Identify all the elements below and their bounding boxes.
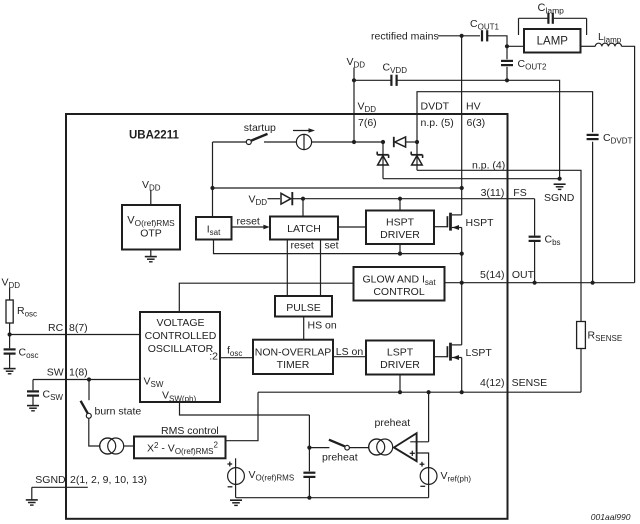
wire OTP to ground [150, 250, 152, 257]
ground CSW ground [27, 405, 39, 407]
svg-text:preheat: preheat [375, 417, 411, 429]
node junction FS / HSPT driver supply [398, 197, 402, 201]
wire RC to Cosc [9, 335, 11, 349]
wire preheat cap to ground rail [308, 477, 310, 498]
wire lamp left [507, 45, 524, 47]
wire LATCH supply stub [302, 199, 304, 217]
node junction 188 rail / HV line [460, 186, 464, 190]
wire X2 output to SENSE rail [226, 392, 259, 441]
svg-text:1(8): 1(8) [69, 367, 88, 379]
wire HSPT gate [434, 226, 447, 228]
wire Z2 anode to RSENSE net (pin n.p.4) [416, 142, 418, 170]
wire lamp return to OUT [622, 46, 635, 282]
svg-text:SGND: SGND [35, 474, 66, 486]
block VOLTAGE CONTROLLED OSCILLATOR box [140, 312, 220, 402]
wire 253 rail (Isat bottom) [214, 240, 462, 254]
svg-text:3(11): 3(11) [481, 187, 505, 199]
node junction SGND net [558, 177, 562, 181]
transistor HSPT source stub+arrow [452, 227, 462, 229]
wire FS drop to Cbs [534, 199, 536, 236]
svg-text:6(3): 6(3) [467, 117, 486, 129]
wire bottom ground rail [236, 497, 429, 499]
svg-text:LATCH: LATCH [287, 223, 321, 235]
switch startup pivot [246, 140, 251, 145]
wire CDVDT to OUT [592, 142, 594, 283]
svg-text:DRIVER: DRIVER [380, 359, 420, 371]
svg-text:CONTROL: CONTROL [373, 286, 424, 298]
wire LS on [333, 356, 366, 358]
svg-text:startup: startup [244, 122, 276, 134]
svg-text:set: set [325, 240, 339, 252]
svg-text:UBA2211: UBA2211 [129, 130, 179, 142]
wire OUT row [445, 282, 635, 284]
wire burn-state to mirror [89, 418, 100, 446]
capacitor COUT1 [481, 30, 483, 41]
svg-text:TIMER: TIMER [277, 359, 310, 371]
wire SGND stub to ground [31, 487, 33, 499]
zener Z2 triangle [412, 156, 423, 165]
ground SGND ground (left) [26, 499, 38, 501]
node junction COUT2/ground rail [505, 78, 509, 82]
svg-text:VOLTAGE: VOLTAGE [156, 317, 204, 329]
svg-text:HS on: HS on [308, 319, 337, 331]
wire SW row [33, 379, 140, 381]
wire X2 box to VO source [235, 458, 237, 497]
switch startup blade [251, 134, 267, 141]
node junction left zener top [381, 140, 385, 144]
diode D1 triangle [395, 137, 406, 147]
voltage source Vref(ph) [428, 468, 430, 498]
block NON-OVERLAP TIMER box [253, 340, 333, 374]
ground Cosc ground [4, 368, 16, 370]
svg-text:burn state: burn state [95, 405, 142, 417]
zener Z2 (right) cathode [411, 154, 422, 156]
svg-text:HSPT: HSPT [466, 217, 495, 229]
zener Z1 (left) cathode [377, 154, 388, 156]
svg-text:LS on: LS on [336, 346, 364, 358]
node junction Isat riser / 188 rail [210, 186, 214, 190]
node junction VDD pin / rail [352, 140, 356, 144]
wire opamp plus input [417, 453, 429, 468]
svg-text:LSPT: LSPT [387, 347, 414, 359]
block LATCH box [270, 217, 338, 240]
node lamp left junction [505, 44, 509, 48]
IC U1 UBA2211 chip outline [66, 114, 508, 519]
block X2-VO(ref)RMS2 box [134, 437, 226, 459]
wire HSPT driver supply stub [399, 199, 401, 211]
capacitor CVDD [390, 75, 392, 86]
capacitor Clamp loop left leg [518, 18, 520, 35]
wire Cbs to OUT [534, 241, 536, 283]
voltage source Vref(ph) plus sign [420, 463, 425, 465]
svg-text:RMS control: RMS control [161, 425, 219, 437]
svg-text:rectified mains: rectified mains [371, 31, 439, 43]
resistor RSENSE [577, 322, 586, 349]
svg-text:n.p. (5): n.p. (5) [421, 117, 454, 129]
svg-text:NON-OVERLAP: NON-OVERLAP [255, 347, 331, 359]
voltage source VO(ref)RMS minus sign [228, 486, 233, 488]
wire opamp minus input [410, 441, 428, 443]
current mirror (preheat) circles [369, 439, 385, 455]
node junction preheat cap/ground rail [307, 496, 311, 500]
svg-text:DVDT: DVDT [421, 100, 450, 112]
svg-text:5(14): 5(14) [480, 269, 505, 281]
svg-text:reset: reset [291, 240, 314, 252]
node junction CDVDT/OUT [591, 281, 595, 285]
svg-text:DRIVER: DRIVER [380, 229, 420, 241]
wire LSPT driver bottom stub [399, 375, 401, 393]
node junction SW/burn-state [87, 377, 91, 381]
transistor LSPT channel bar [449, 343, 452, 361]
current source I1 arrow [293, 130, 311, 132]
wire LATCH to HSPT driver [338, 226, 366, 228]
svg-text:OUT: OUT [512, 269, 535, 281]
transistor HSPT drain stub [452, 214, 462, 216]
svg-text:7(6): 7(6) [358, 117, 377, 129]
capacitor Clamp loop top wires [519, 17, 549, 19]
wire SGND pin [32, 486, 88, 488]
svg-text:FS: FS [513, 187, 526, 199]
wire VDD to OTP [150, 191, 152, 206]
wire SENSE row [258, 391, 581, 393]
wire startup to VDD pin node [312, 141, 354, 143]
node junction D2 / LATCH supply [301, 197, 305, 201]
svg-text:n.p. (4): n.p. (4) [472, 160, 505, 172]
node junction rectified mains / HV [460, 34, 464, 38]
svg-text:PULSE: PULSE [286, 302, 320, 314]
svg-text:HV: HV [466, 100, 481, 112]
block VO(ref)RMS OTP box [122, 205, 180, 250]
svg-text::2: :2 [209, 350, 218, 362]
svg-text:LSPT: LSPT [466, 347, 493, 359]
diode D2 cathode bar [291, 192, 293, 205]
svg-text:OTP: OTP [140, 228, 162, 240]
svg-text:8(7): 8(7) [69, 322, 88, 334]
wire VDD rail to D-left node [354, 141, 383, 143]
wire VCO top to GLOW box [179, 283, 353, 312]
svg-text:4(12): 4(12) [480, 377, 505, 389]
wire lamp right [581, 45, 596, 47]
wire VDD to Rosc [9, 288, 11, 335]
node junction right zener top [415, 140, 419, 144]
wire Z1 anode to SGND line [382, 142, 384, 179]
wire Isat riser [212, 142, 214, 217]
wire burn-state upper [88, 380, 90, 401]
transistor HSPT channel bar [449, 213, 452, 231]
wire VDD pin drop [353, 114, 355, 143]
svg-text:preheat: preheat [322, 451, 358, 463]
transistor LSPT drain stub [452, 344, 462, 346]
svg-text:reset: reset [237, 216, 260, 228]
wire RSENSE to SENSE row [580, 349, 582, 393]
wire switch to preheat mirror [349, 447, 368, 449]
diode D2 bootstrap triangle [281, 193, 291, 204]
wire ground rail VDD-CVDD [354, 79, 391, 81]
svg-text:SGND: SGND [544, 192, 575, 204]
voltage source Vref(ph) minus sign [420, 485, 425, 487]
wire startup row left [213, 141, 247, 143]
svg-text:SENSE: SENSE [512, 377, 548, 389]
node junction OUT/HSPT-LSPT [460, 281, 464, 285]
wire FS internal rail [303, 198, 535, 200]
diode D1 (DVDT to VDD) cathode bar [393, 137, 395, 147]
current source I1 startup [296, 134, 311, 149]
svg-text:001aal990: 001aal990 [591, 512, 631, 522]
ground OTP ground [145, 256, 157, 258]
node junction HSPT source / 253 rail [460, 252, 464, 256]
wire COUT2 to ground rail [506, 67, 508, 81]
capacitor COUT2 stub top [506, 46, 508, 59]
svg-text:SW: SW [47, 367, 64, 379]
wire LATCH set output [320, 240, 322, 297]
voltage source VO(ref)RMS plus sign [227, 463, 232, 465]
wire preheat cap line [308, 415, 310, 471]
switch burn state blade [81, 401, 88, 414]
block GLOW AND Isat CONTROL box [354, 267, 445, 301]
capacitor COUT2 [501, 60, 513, 62]
wire RC row [10, 334, 140, 336]
node junction preheat switch node [307, 446, 311, 450]
block Isat box [196, 217, 232, 240]
wire LSPT gate [434, 356, 447, 358]
current mirror (RMS) circles [100, 438, 116, 454]
capacitor Cosc [4, 348, 16, 350]
wire reset arrow [232, 226, 266, 228]
wire D2 to FS node [292, 198, 303, 200]
svg-text:CONTROLLED: CONTROLLED [145, 330, 217, 342]
wire DVDT pin drop [416, 114, 418, 143]
wire HV pin riser [461, 36, 463, 114]
wire minus input to SENSE [428, 392, 430, 442]
block PULSE box [275, 296, 332, 317]
lamp LAMP box [524, 29, 581, 53]
wire SW to CSW [32, 380, 34, 391]
wire fosc [220, 357, 253, 359]
inductor Llamp [595, 43, 621, 46]
wire Cosc to ground [9, 354, 11, 369]
capacitor Clamp loop right leg [586, 18, 588, 35]
node junction Cbs/OUT [533, 281, 537, 285]
voltage source VO(ref)RMS [228, 468, 245, 485]
svg-text:HSPT: HSPT [386, 217, 415, 229]
wire VDD stub to pin 7 [353, 68, 355, 114]
op-amp preheat comparator [394, 433, 417, 461]
node junction VDD/CVDD [352, 78, 356, 82]
svg-text:2(1, 2, 9, 10, 13): 2(1, 2, 9, 10, 13) [70, 474, 147, 486]
node junction driver/SENSE [398, 390, 402, 394]
wire rectified mains to COUT1 [438, 35, 480, 37]
switch burn state pivot [86, 413, 91, 418]
transistor LSPT source stub+arrow [452, 357, 462, 359]
wire HV line to HSPT drain [461, 114, 463, 215]
capacitor Cbs [529, 236, 541, 238]
svg-text:LAMP: LAMP [537, 36, 569, 48]
svg-text:OSCILLATOR: OSCILLATOR [148, 343, 214, 355]
wire COUT1 to lamp node [487, 36, 507, 47]
resistor Rosc [6, 300, 13, 323]
wire startup row mid [264, 141, 296, 143]
wire mirror to X2 box [124, 445, 134, 447]
block LSPT DRIVER box [366, 341, 434, 375]
switch preheat pivot [345, 445, 350, 450]
wire HSPT source to OUT [461, 228, 463, 283]
capacitor CSW [27, 390, 39, 392]
transistor HSPT gate bar [446, 216, 448, 227]
wire HS on stub [303, 317, 305, 340]
wire VSW(ph) stub [180, 402, 310, 415]
switch preheat blade [329, 440, 345, 447]
wire HSPT driver lower stub [399, 244, 401, 254]
wire CSW to ground [32, 396, 34, 406]
label opamp plus sign [410, 452, 415, 454]
wire OUT to LSPT drain [461, 283, 463, 345]
wire DVDT external net [417, 92, 593, 133]
wire 188 rail to HV line [213, 187, 462, 189]
node junction driver stub / 253 rail [398, 252, 402, 256]
wire LSPT source to SENSE [461, 358, 463, 393]
wire ground rail CVDD to SGND drop [397, 80, 560, 178]
capacitor CDVDT [587, 134, 599, 136]
ground bottom rail ground [230, 499, 242, 501]
block HSPT DRIVER box [366, 211, 434, 245]
wire LATCH reset output [286, 240, 288, 297]
capacitor Clamp [547, 13, 549, 24]
wire VDD to D2 [268, 198, 281, 200]
wire preheat switch left [309, 447, 329, 449]
capacitor preheat timing cap [303, 472, 315, 474]
wire D1 anode to DVDT node [406, 141, 417, 143]
node junction LSPT source/SENSE [460, 390, 464, 394]
transistor LSPT gate bar [446, 346, 448, 357]
svg-text:RC: RC [48, 322, 64, 334]
ground SGND (external right) [554, 183, 566, 185]
node junction RC node [8, 332, 12, 336]
zener Z1 triangle [378, 156, 389, 165]
node junction preheat comp/SENSE [427, 390, 431, 394]
